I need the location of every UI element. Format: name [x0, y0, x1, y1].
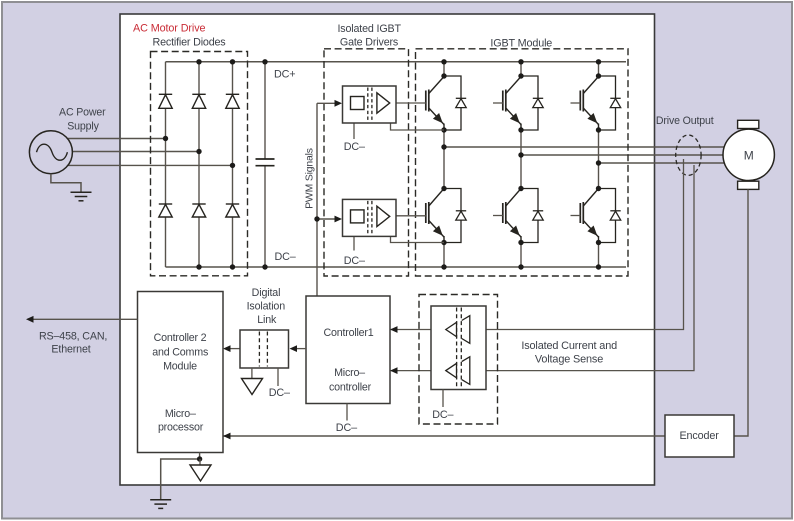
opto gate driver U2 [343, 199, 397, 236]
AC source V1 [29, 131, 72, 174]
label Ethernet [51, 344, 90, 356]
svg-text:DC–: DC– [269, 387, 290, 399]
diode D2 [192, 94, 205, 108]
wire U1 DC- stub [353, 123, 355, 139]
junction leg3 DC+ [230, 59, 235, 64]
label Rectifier Diodes [153, 37, 227, 49]
diode D9 [610, 98, 620, 107]
svg-text:Micro–: Micro– [334, 367, 365, 379]
svg-text:PWM Signals: PWM Signals [305, 148, 316, 209]
svg-text:Controller 2: Controller 2 [154, 332, 207, 344]
svg-text:and Comms: and Comms [152, 346, 208, 358]
wire gnd run [161, 459, 200, 500]
svg-text:Supply: Supply [67, 121, 99, 133]
junction Q4 collector [441, 186, 446, 191]
wire phase A [68, 138, 166, 140]
wire DIL gnd stub [251, 368, 253, 378]
junction C1 bottom [262, 264, 267, 269]
diode D12 [610, 211, 620, 220]
transistor Q6 [580, 189, 598, 243]
arrow into U2 [335, 216, 343, 223]
diode D8 branch wire [521, 76, 538, 130]
ground DIL isolated [242, 379, 263, 395]
diode D7 [456, 98, 466, 107]
diode D7 branch wire [444, 76, 461, 130]
svg-text:RS–458, CAN,: RS–458, CAN, [39, 331, 107, 343]
ground controller2 earth [150, 500, 171, 509]
svg-text:DC–: DC– [344, 255, 365, 267]
transistor Q2 [503, 77, 521, 131]
diode D1 [159, 94, 172, 108]
label Isolated Current and [521, 340, 617, 352]
wire controller2 comms out [33, 318, 138, 320]
label AC Power [59, 107, 106, 119]
svg-text:Voltage Sense: Voltage Sense [535, 354, 603, 366]
diode D12 branch wire [599, 189, 616, 243]
iso amp module U6 box [431, 306, 486, 390]
wire sense DC- stub [442, 390, 444, 408]
encoder module [665, 415, 734, 457]
junction leg2 DC- [518, 264, 523, 269]
junction Q6 collector [596, 186, 601, 191]
wire leg2 mid [520, 129, 522, 189]
transistor Q4 [426, 189, 444, 243]
digital isolation link U3 [240, 330, 289, 368]
wire DIL to controller2 [230, 348, 241, 350]
label U1 DC- [344, 141, 365, 153]
junction phase W tap [596, 160, 601, 165]
opto gate driver U1 [343, 86, 397, 123]
iso amplifier A1 [446, 316, 470, 344]
diode D8 [533, 98, 543, 107]
junction phase A [163, 136, 168, 141]
wire PWM vertical [316, 103, 318, 296]
diode D10 [456, 211, 466, 220]
wire gnd dot to triangle [199, 459, 201, 465]
isolated IGBT gate drivers dashed box [324, 49, 409, 276]
junction phase V tap [518, 152, 523, 157]
wire DC- bus [166, 266, 627, 268]
label sense DC- [432, 409, 453, 421]
junction leg1 DC+ [441, 59, 446, 64]
wire controller2 gnd stub [199, 453, 201, 460]
wire sense ch2 to controller1 [390, 370, 431, 372]
svg-text:Micro–: Micro– [165, 408, 196, 420]
svg-text:DC–: DC– [432, 409, 453, 421]
junction controller2 gnd [197, 456, 202, 461]
svg-text:Digital: Digital [252, 287, 281, 299]
arrow comms [26, 316, 34, 323]
junction Q4 emitter [441, 240, 446, 245]
label Digital [252, 287, 281, 299]
junction Q6 emitter [596, 240, 601, 245]
capacitor C1 [256, 62, 275, 267]
wire gate stub Q5 [493, 215, 503, 217]
arrow into controller2 from DIL [223, 345, 231, 352]
svg-text:DC–: DC– [344, 141, 365, 153]
wire gate stub Q2 [493, 102, 503, 104]
junction phase C [230, 163, 235, 168]
svg-text:M: M [744, 148, 754, 162]
label U2 DC- [344, 255, 365, 267]
wire gate stub Q6 [571, 215, 581, 217]
junction phase U tap [441, 144, 446, 149]
diode D11 [533, 211, 543, 220]
node DC+ [274, 68, 295, 80]
wire leg1 mid [443, 129, 445, 189]
wire rectifier leg 3 [232, 62, 234, 267]
svg-text:IGBT Module: IGBT Module [490, 38, 552, 50]
wire sense ch1 to controller1 [390, 329, 431, 331]
junction Q2 collector [518, 73, 523, 78]
junction Q5 collector [518, 186, 523, 191]
junction leg2 DC+ [518, 59, 523, 64]
wire U2 emitter return [391, 236, 445, 242]
IGBT module dashed box [416, 49, 629, 276]
wire U1 output to gate [396, 102, 426, 104]
wire motor to encoder [734, 189, 748, 436]
junction leg1 DC- [441, 264, 446, 269]
junction Q1 emitter [441, 127, 446, 132]
transistor Q5 [503, 189, 521, 243]
diode D6 [226, 204, 239, 217]
svg-text:AC Power: AC Power [59, 107, 106, 119]
transistor Q3 [580, 77, 598, 131]
wire leg3 mid [598, 129, 600, 189]
wire leg1 top [443, 62, 445, 77]
wire phase V output [521, 154, 725, 156]
isolated current and voltage sense dashed box [419, 295, 498, 425]
svg-text:Ethernet: Ethernet [51, 344, 90, 356]
wire encoder to controller2 [223, 435, 665, 437]
label Drive Output [656, 115, 714, 127]
controller U5 Controller 2 and Comms Module [138, 292, 224, 453]
label Gate Drivers [340, 37, 398, 49]
wire controller1 to DIL [297, 348, 307, 350]
svg-text:AC Motor Drive: AC Motor Drive [133, 23, 205, 35]
wire U2 output to gate [396, 215, 426, 217]
iso amplifier A2 [446, 357, 470, 385]
wire controller1 DC- stub [346, 404, 348, 421]
wire phase C [68, 164, 233, 166]
label Supply [67, 121, 99, 133]
wire DC+ bus [166, 61, 627, 63]
svg-text:Isolated IGBT: Isolated IGBT [337, 23, 401, 35]
ground controller2 isolated [190, 465, 211, 481]
svg-text:Module: Module [163, 360, 197, 372]
label Voltage Sense [535, 354, 603, 366]
transistor Q1 [426, 77, 444, 131]
label PWM Signals [305, 148, 316, 209]
junction Q5 emitter [518, 240, 523, 245]
arrow into U1 [335, 100, 343, 107]
wire phase B [72, 151, 199, 153]
svg-text:Rectifier Diodes: Rectifier Diodes [153, 37, 227, 49]
svg-text:Isolation: Isolation [247, 300, 286, 312]
junction leg3 DC+ [596, 59, 601, 64]
wire voltage sense tap 2 [486, 165, 694, 371]
diode D10 branch wire [444, 189, 461, 243]
wire rectifier leg 2 [198, 62, 200, 267]
wire phase W output [599, 162, 726, 164]
junction Q3 emitter [596, 127, 601, 132]
diode D9 branch wire [599, 76, 616, 130]
svg-text:DC–: DC– [275, 251, 296, 263]
title AC Motor Drive [133, 23, 205, 35]
main panel [120, 14, 655, 485]
label Link [257, 314, 277, 326]
svg-text:Drive Output: Drive Output [656, 115, 714, 127]
label Isolated IGBT [337, 23, 401, 35]
wire leg2 bottom [520, 242, 522, 267]
node DC- [275, 251, 296, 263]
rectifier diodes dashed box [151, 52, 248, 276]
wire leg3 bottom [598, 242, 600, 267]
junction leg3 DC- [230, 264, 235, 269]
drive output sense ellipse [676, 135, 701, 175]
junction leg3 DC- [596, 264, 601, 269]
label IGBT Module [490, 38, 552, 50]
wire leg2 top [520, 62, 522, 77]
label DIL DC- [269, 387, 290, 399]
arrow ch1 into controller1 [390, 326, 398, 333]
controller U4 Controller1 [306, 296, 390, 404]
wire rectifier leg 1 [165, 62, 167, 267]
wire DIL DC- stub [277, 368, 279, 386]
svg-text:Link: Link [257, 314, 277, 326]
junction leg2 DC- [196, 264, 201, 269]
arrow into DIL [290, 345, 298, 352]
wire U1 emitter return [391, 123, 445, 130]
diode D11 branch wire [521, 189, 538, 243]
motor M1 [723, 120, 774, 189]
wire AC source to ground [51, 174, 81, 192]
diode D4 [159, 204, 172, 217]
junction C1 top [262, 59, 267, 64]
diode D3 [226, 94, 239, 108]
wire PWM to U1 [317, 102, 336, 104]
wire leg1 bottom [443, 242, 445, 267]
svg-text:DC–: DC– [336, 422, 357, 434]
svg-text:Encoder: Encoder [680, 430, 720, 442]
svg-text:Gate Drivers: Gate Drivers [340, 37, 398, 49]
junction leg2 DC+ [196, 59, 201, 64]
junction Q2 emitter [518, 127, 523, 132]
svg-text:processor: processor [158, 422, 204, 434]
wire U2 DC- stub [353, 236, 355, 250]
wire leg3 top [598, 62, 600, 77]
junction Q1 collector [441, 73, 446, 78]
label Isolation [247, 300, 286, 312]
arrow ch2 into controller1 [390, 367, 398, 374]
label RS-458 CAN [39, 331, 107, 343]
svg-text:Controller1: Controller1 [323, 327, 373, 339]
junction Q3 collector [596, 73, 601, 78]
junction phase B [196, 149, 201, 154]
label controller1 DC- [336, 422, 357, 434]
wire PWM to U2 [317, 218, 336, 220]
junction PWM branch [314, 216, 319, 221]
svg-text:controller: controller [329, 382, 372, 394]
svg-text:Isolated Current and: Isolated Current and [521, 340, 617, 352]
ground AC supply [71, 192, 92, 201]
arrow into controller2 from encoder [223, 433, 231, 440]
wire gate stub Q3 [571, 102, 581, 104]
wire current sense tap 1 [486, 159, 684, 330]
diode D5 [192, 204, 205, 217]
svg-text:DC+: DC+ [274, 68, 295, 80]
wire phase U output [444, 146, 725, 148]
